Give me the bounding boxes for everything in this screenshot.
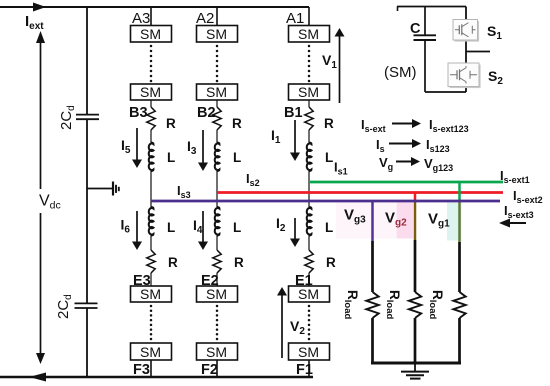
- wire R_load 3 to bottom: [458, 318, 461, 363]
- SM box lower-arm top (phase 2): [197, 286, 238, 302]
- arrow V2 (up): [281, 295, 283, 359]
- svg-text:R: R: [326, 255, 336, 270]
- svg-text:SM: SM: [206, 26, 227, 42]
- SM box upper-arm top (phase 2): [197, 26, 238, 43]
- SM box upper-arm bottom (phase 2): [197, 84, 238, 100]
- wire below SM (upper arm 1): [308, 100, 310, 107]
- wire L-R lower 3: [150, 236, 152, 251]
- wire dotted (more SMs, lower arm 1): [308, 305, 311, 308]
- svg-text:SM: SM: [140, 344, 161, 360]
- capacitor 2Cd bottom: [75, 302, 98, 304]
- wire R_load 1 to bottom: [371, 318, 374, 363]
- arrow left near I_s-ext3: [510, 222, 526, 224]
- arrow current I5: [136, 128, 138, 161]
- svg-text:SM: SM: [298, 26, 319, 42]
- svg-text:F1: F1: [296, 362, 313, 378]
- SM detail: bottom rail: [425, 91, 466, 93]
- inductor L lower arm 1: [307, 207, 312, 236]
- svg-text:B1: B1: [284, 105, 303, 121]
- transistor S1 (IGBT icon): [453, 20, 479, 42]
- node A2 wire from top bus: [216, 7, 218, 26]
- svg-text:L: L: [167, 220, 175, 235]
- svg-text:SM: SM: [298, 286, 319, 302]
- svg-text:L: L: [233, 220, 241, 235]
- highlight band cyan behind Vg1 drop: [447, 203, 462, 241]
- SM box upper-arm bottom (phase 3): [131, 84, 172, 100]
- svg-text:A1: A1: [286, 10, 304, 27]
- resistor R upper arm 1: [305, 107, 313, 130]
- svg-text:L: L: [325, 150, 333, 165]
- wire to bottom bus 1: [308, 360, 310, 377]
- svg-text:SM: SM: [140, 84, 161, 100]
- svg-text:(SM): (SM): [384, 64, 417, 81]
- wire R-SM lower 2: [216, 273, 218, 286]
- inductor L lower arm 3: [149, 207, 154, 236]
- wire bottom DC bus: [0, 376, 313, 379]
- svg-text:R: R: [234, 255, 244, 270]
- wire Vg1 drop (green then dark green then black): [458, 182, 461, 202]
- arrow current I3: [202, 130, 204, 164]
- label R_load 1 (rotated): [342, 290, 360, 319]
- wire Vg2 drop (red/olive then black): [414, 193, 417, 202]
- resistor R lower arm 1: [305, 250, 313, 273]
- SM box lower-arm top (phase 3): [131, 286, 172, 302]
- svg-text:R: R: [166, 116, 176, 131]
- wire below SM (upper arm 3): [150, 100, 152, 107]
- arrow I_ext direction on top bus: [33, 3, 46, 12]
- wire dotted (more SMs, upper arm 1): [308, 45, 311, 48]
- node A3 wire from top bus: [150, 7, 152, 26]
- transistor S2 (IGBT icon): [448, 63, 481, 88]
- svg-text:A2: A2: [196, 10, 214, 27]
- svg-text:SM: SM: [206, 84, 227, 100]
- wire dotted (more SMs, upper arm 3): [150, 45, 153, 48]
- highlight band pink behind Vg2 drop: [397, 203, 414, 239]
- highlight band faint pink behind Vg3/Vg2 zone: [336, 203, 396, 239]
- ground load (earth symbol): [414, 363, 416, 371]
- capacitor C of SM: [424, 7, 426, 35]
- svg-text:SM: SM: [298, 344, 319, 360]
- arrow current I1: [294, 120, 296, 154]
- svg-text:R: R: [232, 116, 242, 131]
- label R_load 2 (rotated): [384, 290, 402, 319]
- svg-text:SM: SM: [206, 286, 227, 302]
- SM box lower-arm bottom (phase 3): [131, 343, 172, 360]
- arrow current I4: [202, 211, 204, 243]
- arrow V_dc double-headed: [40, 41, 42, 189]
- resistor R upper arm 2: [213, 107, 221, 130]
- wire green I_s-ext1 line: [309, 181, 503, 184]
- svg-text:SM: SM: [298, 84, 319, 100]
- wire center of leg 3: [150, 171, 152, 207]
- resistor R_load 3: [453, 292, 465, 318]
- inductor L upper arm 3: [149, 143, 154, 172]
- SM detail: top rail: [397, 6, 466, 8]
- svg-text:SM: SM: [140, 26, 161, 42]
- wire R-SM lower 3: [150, 273, 152, 286]
- resistor R upper arm 3: [147, 107, 155, 130]
- wire left DC-link vertical bus: [86, 7, 88, 114]
- wire Vg3 drop (purple then black): [371, 201, 374, 241]
- resistor R_load 2: [409, 292, 421, 318]
- wire dotted (more SMs, upper arm 2): [216, 45, 219, 48]
- label 2Cd top (rotated): [58, 105, 77, 130]
- wire purple I_s-ext3 line (drawn over verticals): [151, 200, 500, 203]
- svg-text:L: L: [233, 150, 241, 165]
- resistor R_load 1: [366, 292, 378, 318]
- arrow bottom bus pointing left: [29, 373, 46, 382]
- inductor L upper arm 2: [215, 143, 220, 172]
- SM detail: right branch wire: [465, 7, 467, 21]
- SM box upper-arm top (phase 1): [289, 26, 330, 43]
- wire load bottom bus: [371, 362, 461, 365]
- arrow current I2: [294, 218, 296, 240]
- SM box lower-arm bottom (phase 2): [197, 343, 238, 360]
- wire R-SM lower 1: [308, 273, 310, 286]
- svg-text:L: L: [167, 150, 175, 165]
- svg-text:B3: B3: [129, 105, 148, 121]
- svg-text:SM: SM: [140, 286, 161, 302]
- svg-text:SM: SM: [206, 344, 227, 360]
- svg-text:A3: A3: [132, 10, 150, 27]
- wire dotted (more SMs, lower arm 2): [216, 305, 219, 308]
- SM box upper-arm top (phase 3): [131, 26, 172, 43]
- SM box lower-arm bottom (phase 1): [289, 343, 330, 360]
- wire center of leg 2: [216, 171, 218, 207]
- svg-text:F3: F3: [133, 362, 150, 378]
- wire L-R lower 2: [216, 236, 218, 251]
- label R_load 3 (rotated): [427, 290, 445, 319]
- ground midpoint (sideways): [87, 188, 112, 190]
- resistor R lower arm 3: [147, 250, 155, 273]
- svg-text:B2: B2: [197, 105, 216, 121]
- wire R-L upper 1: [308, 130, 310, 143]
- wire R_load 2 to bottom: [414, 318, 417, 363]
- svg-text:R: R: [324, 116, 334, 131]
- SM detail: midpoint stub: [466, 51, 490, 53]
- wire to bottom bus 2: [216, 360, 218, 377]
- wire top DC bus: [0, 6, 309, 8]
- label 2Cd bottom (rotated): [55, 294, 74, 319]
- svg-text:F2: F2: [201, 362, 218, 378]
- wire red I_s-ext2 line: [217, 191, 503, 194]
- arrow V1 (up): [339, 36, 341, 104]
- capacitor 2Cd top: [76, 114, 99, 116]
- wire center of leg 1: [308, 171, 310, 207]
- inductor L lower arm 2: [215, 207, 220, 236]
- svg-text:R: R: [168, 255, 178, 270]
- wire L-R lower 1: [308, 236, 310, 251]
- wire to bottom bus 3: [150, 360, 152, 377]
- SM box upper-arm bottom (phase 1): [289, 84, 330, 100]
- svg-text:C: C: [410, 21, 421, 37]
- svg-text:L: L: [325, 220, 333, 235]
- wire below SM (upper arm 2): [216, 100, 218, 107]
- wire R-L upper 3: [150, 130, 152, 143]
- resistor R lower arm 2: [213, 250, 221, 273]
- SM box lower-arm top (phase 1): [289, 286, 330, 302]
- wire R-L upper 2: [216, 130, 218, 143]
- inductor L upper arm 1: [307, 143, 312, 172]
- arrow current I6: [136, 211, 138, 243]
- node A1 wire from top bus: [308, 7, 310, 26]
- wire dotted (more SMs, lower arm 3): [150, 305, 153, 308]
